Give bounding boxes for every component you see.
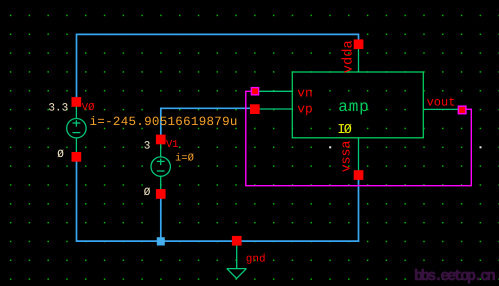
svg-text:i=-245.90516619879u: i=-245.90516619879u	[90, 115, 238, 129]
pin square gnd	[232, 236, 242, 246]
svg-text:Ø: Ø	[144, 187, 151, 199]
svg-text:vout: vout	[427, 96, 456, 110]
amp pin stub vn	[252, 90, 292, 92]
svg-text:amp: amp	[338, 98, 368, 116]
svg-text:Ø: Ø	[57, 149, 64, 161]
wire net vout feedback (magenta): vn pin to vout pin	[246, 91, 471, 185]
voltage source V0	[67, 102, 86, 157]
svg-text:V1: V1	[166, 139, 179, 151]
amp pin stub vp	[252, 108, 292, 110]
svg-text:i=Ø: i=Ø	[175, 152, 194, 164]
wire net vdda: V0 top to amp vdda pin	[77, 34, 359, 101]
wire net vp: V1 top to amp vp pin	[161, 108, 253, 139]
pin square V1 minus	[156, 189, 166, 199]
node junction on gnd rail	[157, 237, 165, 245]
pin square V0 minus	[72, 152, 82, 162]
pin square vssa	[354, 170, 364, 180]
svg-text:gnd: gnd	[246, 253, 266, 265]
ground symbol	[227, 246, 247, 279]
svg-text:vn: vn	[297, 85, 312, 100]
wire net gnd: V0 bottom, bottom rail, up to vssa pin	[77, 157, 359, 241]
svg-text:bbs.eetop.cn: bbs.eetop.cn	[414, 267, 496, 285]
node marker white dot B	[480, 146, 482, 148]
pin vn (io pin square)	[251, 88, 258, 95]
svg-text:vp: vp	[297, 101, 312, 116]
svg-text:vssa: vssa	[339, 141, 354, 173]
node marker white dot A	[329, 146, 331, 148]
voltage source V1	[151, 139, 170, 194]
amp pin stub vssa	[358, 138, 360, 171]
pin vout (io pin square)	[458, 106, 466, 114]
amp pin stub vout	[423, 108, 458, 110]
svg-text:3.3: 3.3	[48, 102, 68, 114]
label instance I0	[337, 123, 352, 138]
op-amp U amp symbol box	[292, 72, 423, 138]
svg-text:3: 3	[144, 141, 151, 153]
pin square V1 plus	[156, 135, 166, 145]
svg-text:VØ: VØ	[82, 102, 95, 114]
wire V1 bottom to gnd rail	[160, 194, 162, 241]
pin square V0 plus	[72, 97, 82, 107]
svg-text:Ø: Ø	[344, 123, 352, 138]
pin square vp	[250, 104, 260, 114]
amp pin stub vdda	[358, 49, 360, 72]
pin square vdda	[354, 39, 364, 49]
